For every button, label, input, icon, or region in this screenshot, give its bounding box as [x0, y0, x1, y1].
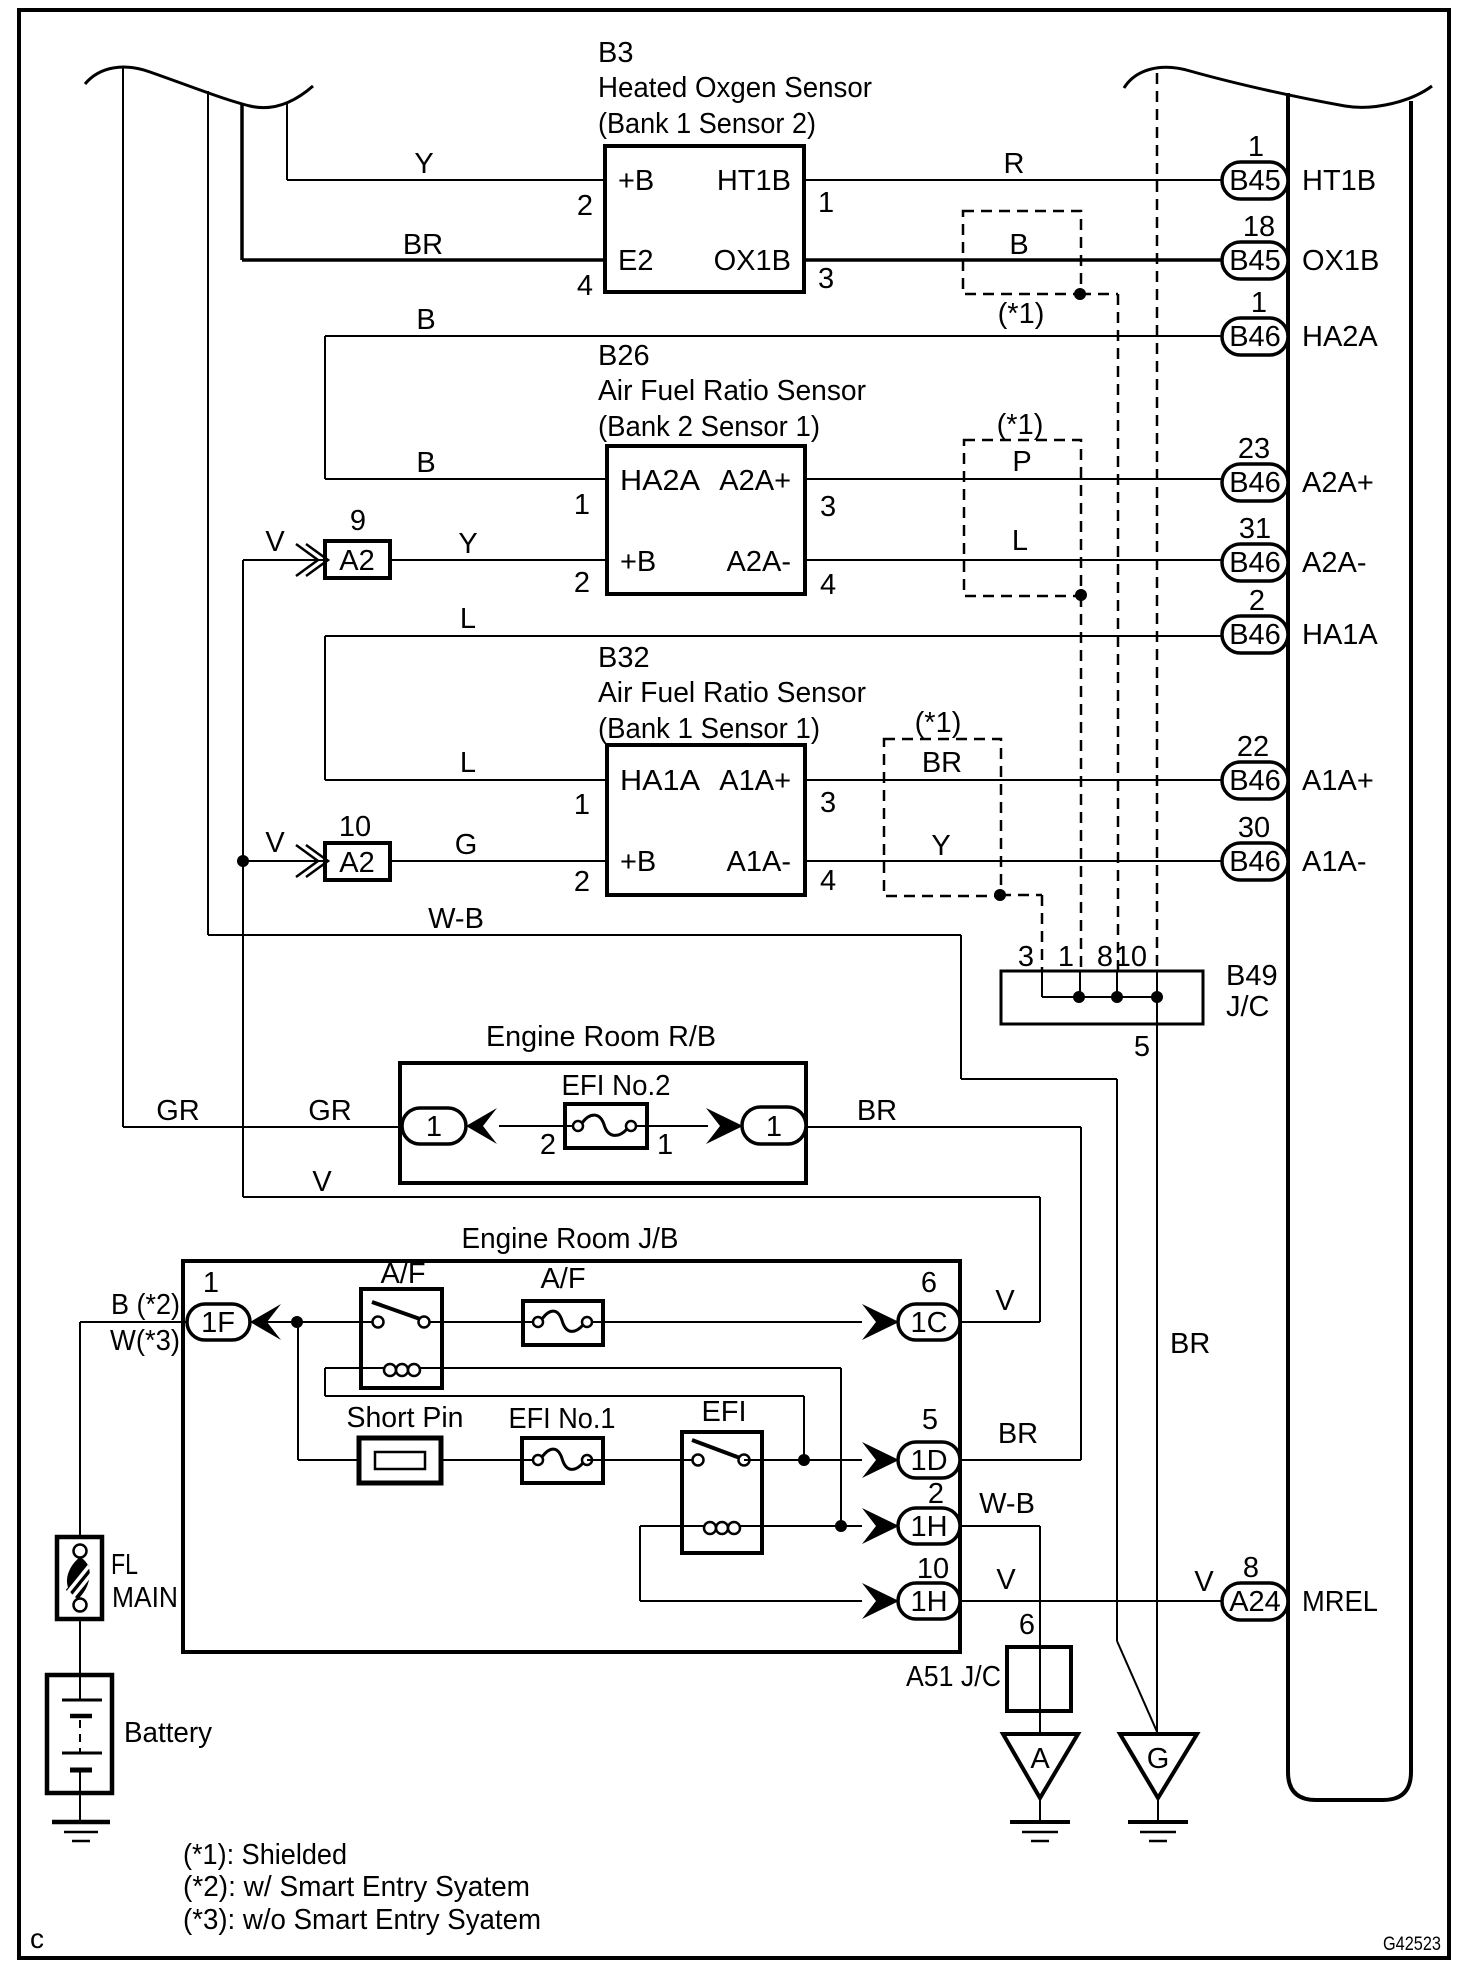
- svg-text:V: V: [995, 1285, 1015, 1317]
- svg-text:2: 2: [574, 567, 590, 599]
- svg-text:B46: B46: [1229, 846, 1281, 878]
- svg-text:B46: B46: [1229, 467, 1281, 499]
- svg-text:HA1A: HA1A: [620, 765, 701, 797]
- svg-text:Engine Room J/B: Engine Room J/B: [462, 1223, 679, 1255]
- svg-text:10: 10: [339, 811, 371, 843]
- svg-text:G: G: [455, 829, 478, 861]
- svg-text:L: L: [460, 603, 476, 635]
- svg-text:B32: B32: [598, 642, 650, 674]
- svg-text:4: 4: [820, 865, 836, 897]
- svg-text:B3: B3: [598, 37, 633, 69]
- svg-text:3: 3: [1018, 941, 1034, 973]
- svg-text:B46: B46: [1229, 765, 1281, 797]
- svg-text:1F: 1F: [201, 1307, 235, 1339]
- svg-text:A2A+: A2A+: [719, 465, 791, 497]
- svg-text:OX1B: OX1B: [1302, 245, 1379, 277]
- svg-text:B: B: [416, 447, 435, 479]
- svg-text:A2: A2: [339, 545, 374, 577]
- svg-text:B: B: [1009, 229, 1028, 261]
- svg-text:V: V: [996, 1564, 1016, 1596]
- svg-text:A/F: A/F: [540, 1263, 585, 1295]
- svg-text:Engine Room R/B: Engine Room R/B: [486, 1021, 716, 1053]
- svg-text:1: 1: [574, 489, 590, 521]
- svg-text:22: 22: [1237, 731, 1269, 763]
- svg-text:V: V: [265, 827, 285, 859]
- svg-text:(*2): w/ Smart Entry Syatem: (*2): w/ Smart Entry Syatem: [183, 1871, 530, 1903]
- svg-text:30: 30: [1238, 812, 1270, 844]
- svg-text:(Bank 2 Sensor 1): (Bank 2 Sensor 1): [598, 411, 820, 443]
- svg-text:A2: A2: [339, 847, 374, 879]
- svg-text:1H: 1H: [910, 1511, 947, 1543]
- svg-text:W(*3): W(*3): [110, 1325, 180, 1357]
- svg-text:HT1B: HT1B: [717, 165, 791, 197]
- svg-text:A: A: [1030, 1743, 1050, 1775]
- svg-text:V: V: [312, 1166, 332, 1198]
- svg-text:+B: +B: [620, 846, 656, 878]
- svg-text:1: 1: [1058, 941, 1074, 973]
- svg-text:B46: B46: [1229, 619, 1281, 651]
- svg-text:(*1): (*1): [998, 298, 1045, 330]
- svg-text:23: 23: [1238, 433, 1270, 465]
- svg-text:(*3): w/o Smart Entry Syatem: (*3): w/o Smart Entry Syatem: [183, 1904, 541, 1936]
- svg-text:B26: B26: [598, 340, 650, 372]
- svg-text:Battery: Battery: [124, 1717, 212, 1749]
- svg-text:V: V: [1194, 1566, 1214, 1598]
- svg-text:2: 2: [574, 866, 590, 898]
- svg-text:V: V: [265, 526, 285, 558]
- svg-text:B45: B45: [1229, 165, 1281, 197]
- svg-text:4: 4: [820, 569, 836, 601]
- svg-text:HT1B: HT1B: [1302, 165, 1376, 197]
- svg-text:3: 3: [820, 787, 836, 819]
- svg-text:A1A-: A1A-: [1302, 846, 1366, 878]
- svg-text:Air Fuel Ratio Sensor: Air Fuel Ratio Sensor: [598, 677, 866, 709]
- svg-text:HA2A: HA2A: [1302, 321, 1378, 353]
- svg-text:A24: A24: [1229, 1586, 1281, 1618]
- svg-text:2: 2: [1249, 585, 1265, 617]
- svg-text:(*1): Shielded: (*1): Shielded: [183, 1839, 347, 1871]
- svg-text:4: 4: [577, 270, 593, 302]
- svg-text:10: 10: [917, 1553, 949, 1585]
- svg-text:31: 31: [1239, 513, 1271, 545]
- svg-text:2: 2: [540, 1129, 556, 1161]
- svg-text:E2: E2: [618, 245, 653, 277]
- svg-text:1: 1: [1248, 131, 1264, 163]
- svg-text:(Bank 1 Sensor 2): (Bank 1 Sensor 2): [598, 108, 816, 140]
- svg-text:9: 9: [350, 505, 366, 537]
- svg-text:3: 3: [820, 491, 836, 523]
- svg-text:MREL: MREL: [1302, 1586, 1378, 1618]
- svg-text:Y: Y: [414, 148, 433, 180]
- svg-text:L: L: [460, 747, 476, 779]
- svg-text:A1A+: A1A+: [719, 765, 791, 797]
- svg-text:BR: BR: [998, 1418, 1038, 1450]
- svg-text:1: 1: [818, 187, 834, 219]
- svg-text:BR: BR: [403, 229, 443, 261]
- svg-text:6: 6: [921, 1267, 937, 1299]
- svg-text:GR: GR: [308, 1095, 352, 1127]
- svg-text:J/C: J/C: [1226, 991, 1270, 1023]
- svg-text:B46: B46: [1229, 321, 1281, 353]
- svg-text:(Bank 1 Sensor 1): (Bank 1 Sensor 1): [598, 713, 820, 745]
- svg-text:BR: BR: [922, 747, 962, 779]
- svg-text:BR: BR: [857, 1095, 897, 1127]
- svg-text:L: L: [1012, 525, 1028, 557]
- svg-text:5: 5: [922, 1404, 938, 1436]
- svg-text:(*1): (*1): [997, 409, 1044, 441]
- svg-text:P: P: [1012, 446, 1031, 478]
- svg-text:Air Fuel Ratio Sensor: Air Fuel Ratio Sensor: [598, 375, 866, 407]
- svg-text:A2A-: A2A-: [1302, 547, 1366, 579]
- svg-text:1: 1: [203, 1267, 219, 1299]
- svg-text:10: 10: [1115, 941, 1147, 973]
- svg-text:FL: FL: [111, 1549, 138, 1581]
- svg-text:8: 8: [1097, 941, 1113, 973]
- svg-text:HA2A: HA2A: [620, 465, 701, 497]
- svg-text:B46: B46: [1229, 547, 1281, 579]
- svg-text:A/F: A/F: [380, 1258, 425, 1290]
- svg-text:1C: 1C: [910, 1307, 947, 1339]
- svg-text:Y: Y: [458, 528, 477, 560]
- svg-text:W-B: W-B: [428, 903, 484, 935]
- svg-text:1: 1: [657, 1129, 673, 1161]
- svg-text:B49: B49: [1226, 960, 1278, 992]
- svg-text:18: 18: [1243, 211, 1275, 243]
- svg-text:Y: Y: [931, 830, 950, 862]
- svg-text:2: 2: [577, 190, 593, 222]
- svg-text:A51 J/C: A51 J/C: [906, 1661, 1001, 1693]
- svg-text:OX1B: OX1B: [714, 245, 791, 277]
- svg-text:A2A-: A2A-: [727, 546, 791, 578]
- svg-text:Short Pin: Short Pin: [347, 1402, 464, 1434]
- svg-text:5: 5: [1134, 1031, 1150, 1063]
- svg-text:HA1A: HA1A: [1302, 619, 1378, 651]
- svg-text:MAIN: MAIN: [112, 1582, 178, 1614]
- svg-text:B45: B45: [1229, 245, 1281, 277]
- svg-text:EFI No.1: EFI No.1: [509, 1403, 616, 1435]
- svg-text:+B: +B: [618, 165, 654, 197]
- svg-text:Heated Oxgen Sensor: Heated Oxgen Sensor: [598, 72, 872, 104]
- svg-text:EFI: EFI: [701, 1396, 746, 1428]
- svg-text:A2A+: A2A+: [1302, 467, 1374, 499]
- svg-text:1: 1: [426, 1111, 442, 1143]
- svg-text:B (*2): B (*2): [111, 1289, 180, 1321]
- svg-text:EFI No.2: EFI No.2: [562, 1070, 671, 1102]
- svg-text:A1A+: A1A+: [1302, 765, 1374, 797]
- svg-text:G42523: G42523: [1383, 1934, 1441, 1955]
- svg-text:R: R: [1004, 148, 1025, 180]
- svg-text:GR: GR: [156, 1095, 200, 1127]
- svg-text:A1A-: A1A-: [727, 846, 791, 878]
- svg-text:B: B: [416, 304, 435, 336]
- svg-text:1: 1: [574, 789, 590, 821]
- svg-text:3: 3: [818, 263, 834, 295]
- svg-text:W-B: W-B: [979, 1488, 1035, 1520]
- svg-text:(*1): (*1): [915, 707, 962, 739]
- svg-text:1: 1: [766, 1111, 782, 1143]
- svg-text:2: 2: [928, 1478, 944, 1510]
- svg-text:1: 1: [1251, 287, 1267, 319]
- svg-text:G: G: [1147, 1743, 1170, 1775]
- svg-text:6: 6: [1019, 1609, 1035, 1641]
- svg-text:BR: BR: [1170, 1328, 1210, 1360]
- svg-text:+B: +B: [620, 546, 656, 578]
- svg-text:8: 8: [1243, 1552, 1259, 1584]
- svg-text:c: c: [30, 1923, 44, 1954]
- svg-text:1H: 1H: [910, 1586, 947, 1618]
- svg-text:1D: 1D: [910, 1445, 947, 1477]
